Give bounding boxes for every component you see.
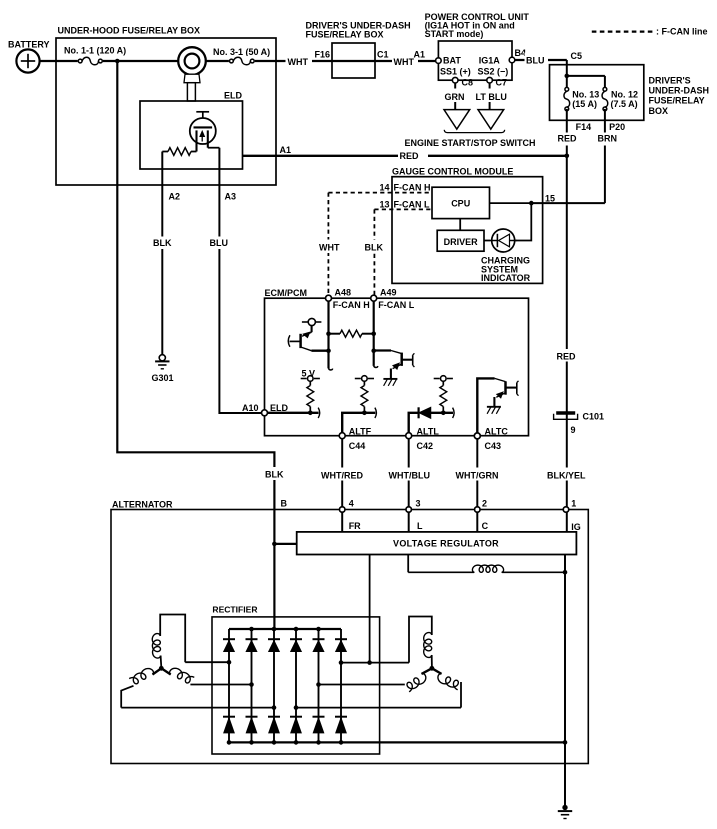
svg-text:ELD: ELD — [270, 403, 289, 413]
svg-text:A48: A48 — [335, 288, 352, 298]
svg-text:F-CAN L: F-CAN L — [394, 200, 430, 210]
svg-text:A2: A2 — [169, 192, 181, 202]
svg-text:BOX: BOX — [649, 106, 669, 116]
svg-text:ALTC: ALTC — [485, 426, 509, 436]
svg-text:ALTERNATOR: ALTERNATOR — [112, 499, 173, 509]
svg-text:RED: RED — [558, 134, 578, 144]
svg-text:B: B — [281, 499, 288, 509]
svg-text:VOLTAGE REGULATOR: VOLTAGE REGULATOR — [393, 539, 499, 549]
svg-text:F-CAN L: F-CAN L — [378, 300, 414, 310]
svg-text:FR: FR — [349, 521, 361, 531]
svg-text:F14: F14 — [576, 122, 592, 132]
svg-text:DRIVER'S: DRIVER'S — [649, 76, 691, 86]
svg-text:ALTF: ALTF — [349, 426, 372, 436]
svg-text:UNDER-HOOD FUSE/RELAY BOX: UNDER-HOOD FUSE/RELAY BOX — [58, 26, 201, 36]
svg-text:13: 13 — [379, 200, 389, 210]
svg-text:L: L — [417, 521, 423, 531]
svg-text:15: 15 — [545, 194, 555, 204]
svg-text:RED: RED — [400, 151, 420, 161]
svg-text:2: 2 — [482, 499, 487, 509]
svg-text:No. 12: No. 12 — [611, 90, 638, 100]
svg-text:IG: IG — [571, 522, 581, 532]
svg-text:WHT: WHT — [288, 57, 309, 67]
svg-text:C44: C44 — [349, 441, 366, 451]
svg-text:FUSE/RELAY BOX: FUSE/RELAY BOX — [306, 29, 384, 39]
svg-text:WHT: WHT — [319, 243, 340, 253]
svg-text:A3: A3 — [225, 192, 237, 202]
svg-text:G301: G301 — [152, 373, 174, 383]
svg-text:1: 1 — [571, 499, 576, 509]
svg-text:RECTIFIER: RECTIFIER — [212, 605, 257, 615]
svg-text:A1: A1 — [413, 50, 425, 60]
svg-text:BLU: BLU — [526, 56, 545, 66]
svg-text:ALTL: ALTL — [417, 426, 440, 436]
svg-text:C7: C7 — [496, 78, 508, 88]
svg-text:A49: A49 — [380, 288, 397, 298]
svg-text:BAT: BAT — [443, 56, 461, 66]
svg-text:No. 1-1 (120 A): No. 1-1 (120 A) — [64, 46, 126, 56]
svg-text:F16: F16 — [314, 50, 330, 60]
svg-text:START mode): START mode) — [425, 29, 484, 39]
svg-text:No. 13: No. 13 — [572, 90, 599, 100]
svg-text:4: 4 — [349, 499, 354, 509]
svg-text:No. 3-1 (50 A): No. 3-1 (50 A) — [213, 47, 270, 57]
svg-text:SS1 (+): SS1 (+) — [440, 67, 471, 77]
svg-text:F-CAN H: F-CAN H — [394, 183, 431, 193]
svg-text:WHT/RED: WHT/RED — [321, 470, 363, 480]
svg-text:B4: B4 — [515, 48, 527, 58]
svg-text:WHT/BLU: WHT/BLU — [389, 470, 431, 480]
svg-text:A1: A1 — [280, 145, 292, 155]
svg-text:C43: C43 — [485, 441, 502, 451]
svg-text:GRN: GRN — [445, 92, 465, 102]
svg-text:WHT: WHT — [394, 57, 415, 67]
svg-text:A10: A10 — [242, 403, 259, 413]
svg-text:9: 9 — [571, 425, 576, 435]
svg-text:C101: C101 — [583, 412, 605, 422]
svg-text:C1: C1 — [377, 50, 389, 60]
svg-text:C: C — [482, 521, 489, 531]
svg-text:(15 A): (15 A) — [572, 99, 597, 109]
svg-text:ECM/PCM: ECM/PCM — [265, 288, 308, 298]
svg-text:(7.5 A): (7.5 A) — [611, 99, 638, 109]
svg-text:BLK: BLK — [265, 470, 284, 480]
svg-text:BATTERY: BATTERY — [8, 40, 50, 50]
svg-text:CPU: CPU — [451, 199, 470, 209]
svg-text:DRIVER: DRIVER — [444, 237, 479, 247]
svg-text:P20: P20 — [609, 122, 625, 132]
svg-text:UNDER-DASH: UNDER-DASH — [649, 86, 710, 96]
svg-text:LT BLU: LT BLU — [476, 92, 507, 102]
svg-text:FUSE/RELAY: FUSE/RELAY — [649, 96, 705, 106]
svg-text:ENGINE START/STOP SWITCH: ENGINE START/STOP SWITCH — [405, 138, 536, 148]
svg-text:SS2 (−): SS2 (−) — [478, 67, 509, 77]
svg-text:IG1A: IG1A — [479, 56, 501, 66]
svg-text:14: 14 — [379, 183, 389, 193]
svg-text:BLK/YEL: BLK/YEL — [547, 470, 586, 480]
svg-text:C42: C42 — [417, 441, 434, 451]
svg-text:RED: RED — [557, 352, 577, 362]
svg-text:WHT/GRN: WHT/GRN — [456, 470, 499, 480]
svg-text:C5: C5 — [571, 51, 583, 61]
svg-text:BLK: BLK — [153, 238, 172, 248]
svg-text:: F-CAN line: : F-CAN line — [656, 27, 708, 37]
svg-text:BLK: BLK — [365, 243, 384, 253]
svg-text:BRN: BRN — [598, 134, 618, 144]
svg-text:F-CAN H: F-CAN H — [333, 300, 370, 310]
svg-text:GAUGE CONTROL MODULE: GAUGE CONTROL MODULE — [392, 167, 513, 177]
svg-text:ELD: ELD — [224, 91, 243, 101]
svg-text:BLU: BLU — [210, 238, 229, 248]
svg-text:INDICATOR: INDICATOR — [481, 273, 531, 283]
svg-text:3: 3 — [416, 499, 421, 509]
svg-text:C8: C8 — [462, 78, 474, 88]
